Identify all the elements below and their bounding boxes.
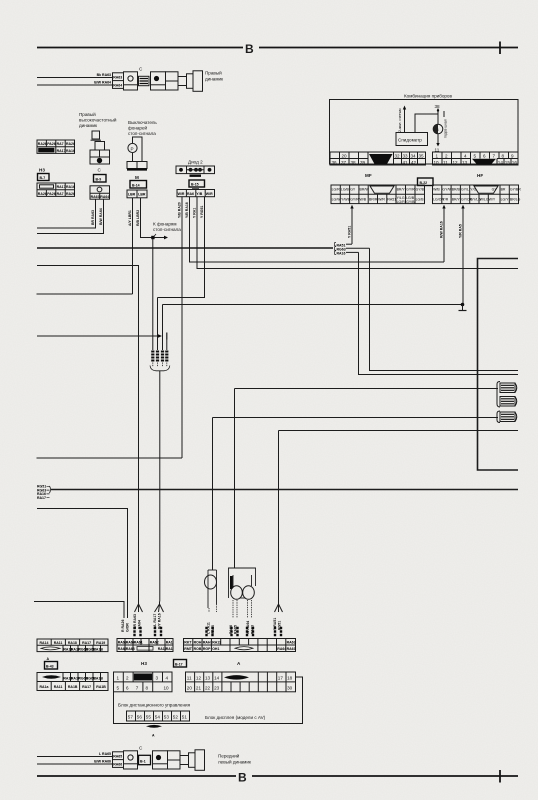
svg-text:RA26: RA26: [66, 192, 75, 196]
svg-text:RA11: RA11: [212, 641, 221, 645]
svg-text:LG/W: LG/W: [332, 198, 342, 202]
svg-text:55: 55: [146, 715, 152, 720]
svg-text:GY/B: GY/B: [406, 200, 415, 204]
pin 11: [435, 134, 440, 153]
svg-text:20: 20: [342, 153, 348, 158]
svg-text:RA63: RA63: [251, 625, 255, 634]
svg-text:Диод 2: Диод 2: [188, 160, 203, 165]
svg-text:LG/B: LG/B: [341, 188, 350, 192]
fork into H3 table wire x159: [153, 602, 164, 636]
pin 38: [435, 104, 445, 125]
svg-text:53: 53: [164, 715, 170, 720]
label C tweeter: [98, 168, 102, 173]
wire labels left fork pair: [121, 614, 130, 632]
svg-text:RA1B: RA1B: [93, 676, 103, 680]
svg-text:BR/Y: BR/Y: [452, 198, 461, 202]
svg-text:ROH: ROH: [194, 641, 202, 645]
svg-text:2: 2: [445, 153, 448, 158]
svg-text:LG/B: LG/B: [416, 198, 425, 202]
svg-text:RA65: RA65: [113, 754, 122, 758]
connector table upper-left: [37, 140, 75, 153]
wire R/B LBR2 from switch: [136, 198, 153, 238]
svg-text:LBR: LBR: [138, 193, 146, 197]
svg-text:1: 1: [436, 153, 439, 158]
svg-text:7: 7: [136, 686, 139, 691]
wire left bus y265: [37, 266, 139, 602]
svg-text:12: 12: [453, 160, 459, 165]
svg-text:10: 10: [164, 686, 170, 691]
svg-text:левый динамик: левый динамик: [218, 759, 252, 765]
svg-text:Комбинация приборов: Комбинация приборов: [404, 94, 452, 99]
svg-text:Блок дисплея (модели с AV): Блок дисплея (модели с AV): [205, 715, 266, 720]
svg-text:B-7: B-7: [40, 176, 46, 180]
wire to M switch left: [37, 293, 133, 295]
svg-text:RA26: RA26: [38, 142, 47, 146]
svg-text:P: P: [131, 147, 134, 152]
svg-text:32: 32: [395, 153, 401, 158]
svg-text:B-15: B-15: [191, 183, 199, 187]
svg-text:Y/B RA20: Y/B RA20: [178, 202, 182, 218]
svg-text:RA64: RA64: [277, 647, 286, 651]
wire RA16 down right: [359, 252, 519, 374]
cluster pin row right: [433, 152, 519, 165]
label A with connector ref B-43: [45, 657, 58, 669]
svg-text:RA17: RA17: [82, 685, 91, 689]
svg-text:LG/R: LG/R: [397, 200, 406, 204]
svg-text:BR/R: BR/R: [369, 198, 378, 202]
svg-text:стоп-сигнала: стоп-сигнала: [153, 227, 181, 232]
svg-text:16: 16: [512, 160, 518, 165]
svg-text:RA63: RA63: [113, 75, 122, 79]
svg-text:12: 12: [196, 676, 202, 681]
svg-text:5: 5: [474, 153, 477, 158]
svg-text:B/W RA64: B/W RA64: [94, 81, 111, 85]
svg-text:подсв шкал: подсв шкал: [444, 119, 448, 138]
svg-text:G/OR: G/OR: [126, 623, 130, 632]
svg-text:Y RG51: Y RG51: [200, 206, 204, 218]
right speaker symbol: [166, 71, 203, 92]
wire y335 with arrow: [37, 333, 167, 340]
svg-text:9: 9: [511, 153, 514, 158]
top page rule B: [37, 42, 518, 57]
svg-text:1.4: 1.4: [434, 128, 439, 132]
svg-text:56: 56: [137, 715, 143, 720]
svg-text:10: 10: [434, 160, 440, 165]
svg-text:H3: H3: [141, 661, 147, 666]
svg-text:RA10: RA10: [211, 625, 215, 634]
inline connector right edge single: [497, 411, 517, 423]
svg-text:38: 38: [435, 104, 441, 109]
node wire name RA51: [335, 243, 353, 248]
wire speedometer to pin 38: [415, 114, 438, 133]
svg-text:Правый: Правый: [205, 70, 222, 76]
svg-text:Y/R: Y/R: [442, 198, 448, 202]
svg-text:RA1B: RA1B: [93, 648, 103, 652]
svg-text:34: 34: [411, 153, 417, 158]
wire diode1 to left y458: [37, 457, 183, 459]
svg-text:B-1: B-1: [140, 759, 146, 763]
svg-text:Правый: Правый: [79, 111, 96, 117]
svg-text:RA64: RA64: [113, 84, 122, 88]
svg-text:B-22: B-22: [420, 181, 428, 185]
label HF: [477, 173, 483, 178]
svg-text:Блок дистанционного управления: Блок дистанционного управления: [118, 703, 191, 708]
svg-text:L RA65: L RA65: [99, 752, 111, 756]
inline connector 4-wire: [150, 338, 170, 602]
connector table bottom-middle: [117, 639, 173, 652]
svg-text:RA17: RA17: [37, 496, 46, 500]
fork into H3 table wire x138: [133, 602, 143, 636]
svg-text:RA6: RA6: [187, 192, 194, 196]
svg-text:RA14: RA14: [40, 641, 49, 645]
svg-text:B/W RA64: B/W RA64: [99, 208, 103, 225]
remote control unit enclosure: [114, 677, 303, 724]
svg-text:RA63: RA63: [287, 641, 296, 645]
svg-text:RMT: RMT: [184, 647, 192, 651]
svg-text:RA7: RA7: [57, 142, 64, 146]
svg-text:39: 39: [360, 160, 366, 165]
connector diode cells: [177, 189, 215, 197]
shielded wire loop x212: [205, 570, 217, 635]
shielded pair box x234: [229, 568, 256, 635]
svg-text:35: 35: [419, 153, 425, 158]
svg-text:W/LG: W/LG: [480, 198, 489, 202]
svg-text:BR/LG: BR/LG: [510, 198, 521, 202]
svg-text:GY/R: GY/R: [350, 198, 359, 202]
svg-text:2-жил. счетчик: 2-жил. счетчик: [398, 108, 402, 132]
connector table bottom-right: [184, 639, 296, 652]
svg-text:Y/G: Y/G: [470, 188, 476, 192]
svg-text:RA26: RA26: [38, 192, 47, 196]
svg-text:15: 15: [505, 160, 511, 165]
wire B/W RA64 to right speaker: [37, 81, 112, 86]
connector housing with pin dot: [151, 72, 166, 90]
svg-text:7: 7: [493, 153, 496, 158]
svg-text:RA65: RA65: [234, 625, 238, 634]
svg-text:RA51: RA51: [387, 198, 396, 202]
wire corner x212 to right connector: [213, 418, 499, 571]
svg-text:BR/B: BR/B: [452, 188, 461, 192]
svg-text:RA63: RA63: [126, 647, 135, 651]
svg-text:RA1: RA1: [166, 647, 173, 651]
lamp 1.4W scale illumination: [433, 119, 447, 138]
svg-text:8: 8: [502, 153, 505, 158]
svg-text:R/B LBR2: R/B LBR2: [136, 210, 140, 226]
connector table HF: [433, 185, 522, 204]
svg-text:B-9: B-9: [96, 177, 102, 181]
label stop lamp switch: [128, 120, 157, 136]
connector ref B-7: [38, 174, 50, 181]
svg-text:Y RA1: Y RA1: [193, 208, 197, 218]
svg-text:RA63: RA63: [287, 647, 296, 651]
svg-text:W/B: W/B: [433, 188, 440, 192]
wire RG51 via y297: [157, 298, 159, 339]
svg-text:B: B: [238, 771, 247, 785]
node wire name RA16: [335, 251, 359, 256]
wire R/W RA16 from HF: [440, 205, 446, 262]
svg-text:21: 21: [196, 686, 202, 691]
connector ref B-22: [418, 178, 434, 186]
svg-text:Y/L RA17: Y/L RA17: [153, 614, 157, 629]
remote control unit table left: [114, 672, 173, 692]
svg-text:6: 6: [483, 153, 486, 158]
connector cells RA63 RA64 top speaker: [113, 73, 124, 89]
svg-text:Bk RA63: Bk RA63: [97, 73, 111, 77]
wire Y RG51 diode pin4: [158, 197, 205, 298]
label MF: [365, 173, 372, 178]
bundle label left RG63: [37, 485, 51, 500]
label H3 bottom: [141, 661, 147, 666]
svg-text:R/W RA16: R/W RA16: [440, 221, 444, 238]
svg-text:W RA64: W RA64: [246, 621, 250, 634]
svg-text:1: 1: [117, 676, 120, 681]
connector housing with socket circle: [124, 72, 138, 90]
svg-text:К фонарям: К фонарям: [153, 222, 177, 227]
svg-text:41: 41: [403, 160, 409, 165]
svg-text:RA62: RA62: [150, 641, 159, 645]
svg-text:11: 11: [187, 676, 192, 681]
svg-text:23: 23: [214, 686, 220, 691]
svg-text:RA18: RA18: [68, 641, 77, 645]
svg-text:B-43: B-43: [46, 664, 54, 668]
tweeter symbol: [90, 131, 110, 164]
connector table lower-left: [37, 183, 75, 196]
svg-text:4: 4: [166, 676, 169, 681]
wire B/W RA64 from tweeter: [37, 199, 104, 233]
svg-text:B/Y RA16: B/Y RA16: [157, 613, 161, 629]
svg-text:высокочастотный: высокочастотный: [79, 117, 117, 123]
inline connector right edge pair: [497, 382, 517, 408]
svg-text:A/Y LBR1: A/Y LBR1: [128, 210, 132, 226]
svg-text:Y/B RA16: Y/B RA16: [185, 202, 189, 218]
svg-text:OH1: OH1: [212, 647, 219, 651]
connector table bottom-left lower: [37, 673, 108, 691]
svg-text:L RA11: L RA11: [207, 622, 211, 634]
connector table bottom-left upper: [37, 639, 108, 652]
inline connector C (top speaker): [139, 67, 150, 86]
svg-text:Y RA51: Y RA51: [348, 226, 352, 238]
speedometer box: [396, 133, 428, 146]
connector cells front speaker: [113, 752, 124, 768]
wire y601 corner down: [34, 602, 124, 615]
svg-text:PA26: PA26: [47, 142, 56, 146]
svg-text:H3: H3: [39, 168, 45, 173]
svg-text:RA66: RA66: [113, 763, 122, 767]
wire y304 to node T: [163, 305, 463, 339]
svg-text:57: 57: [128, 715, 134, 720]
svg-text:B/W RA66: B/W RA66: [94, 760, 111, 764]
bottom page rule B: [37, 770, 518, 785]
svg-text:RA26: RA26: [66, 142, 75, 146]
svg-text:RA66: RA66: [229, 625, 233, 634]
label to stop lamps with arrow: [153, 222, 181, 240]
inline connector C front with ref B-1: [139, 746, 151, 765]
svg-text:GY/R: GY/R: [406, 188, 415, 192]
svg-text:38: 38: [351, 160, 357, 165]
label front left speaker: [218, 753, 252, 765]
remote control unit table right: [186, 672, 296, 692]
svg-text:5: 5: [117, 686, 120, 691]
wire Y/B RA16 diode pin2: [185, 197, 444, 262]
label A bottom-right table: [237, 661, 241, 666]
connector ref B-17: [174, 660, 187, 668]
svg-text:RA11: RA11: [54, 685, 63, 689]
svg-text:6: 6: [126, 686, 129, 691]
svg-text:PA26: PA26: [47, 192, 56, 196]
svg-text:14: 14: [214, 676, 220, 681]
svg-text:42: 42: [411, 160, 417, 165]
svg-text:RA1a: RA1a: [40, 685, 49, 689]
svg-text:33: 33: [403, 153, 409, 158]
label right speaker: [205, 70, 224, 82]
svg-text:GY/L: GY/L: [461, 188, 469, 192]
svg-text:HF: HF: [477, 173, 483, 178]
svg-text:11: 11: [443, 160, 448, 165]
label M: [135, 175, 139, 180]
svg-text:RA1B: RA1B: [68, 685, 78, 689]
svg-text:фонарей: фонарей: [128, 125, 148, 131]
wire Y RA1 diode pin3: [193, 197, 518, 269]
svg-text:13: 13: [462, 160, 468, 165]
svg-text:RA61: RA61: [134, 641, 143, 645]
svg-text:RA7: RA7: [57, 192, 64, 196]
svg-text:RA17: RA17: [57, 185, 66, 189]
svg-text:B-17: B-17: [175, 662, 183, 666]
wire corner x278 thick to right: [279, 431, 519, 602]
wire stop signal down: [152, 239, 154, 338]
svg-text:51: 51: [182, 715, 188, 720]
svg-text:BR/W: BR/W: [360, 188, 370, 192]
front left speaker symbol: [168, 750, 205, 771]
wire A/Y LBR1 from switch: [128, 198, 133, 294]
svg-text:52: 52: [173, 715, 179, 720]
svg-text:8: 8: [146, 686, 149, 691]
bus wire main y489: [51, 489, 518, 491]
wire Y RA51 from MF: [348, 205, 354, 244]
svg-text:Спидометр: Спидометр: [398, 138, 422, 143]
svg-text:GY: GY: [350, 188, 356, 192]
node stop wire junction: [151, 236, 154, 239]
node T terminator: [459, 303, 467, 311]
svg-text:RA17: RA17: [82, 641, 91, 645]
svg-text:LG/Y: LG/Y: [501, 198, 510, 202]
wire corner x234 to right connector: [235, 389, 499, 569]
diode 2 symbol: [176, 166, 215, 177]
wire BR RA63 from tweeter: [37, 199, 96, 228]
svg-text:RA1: RA1: [166, 641, 173, 645]
svg-text:RA16: RA16: [66, 149, 75, 153]
svg-text:W/R: W/R: [206, 192, 213, 196]
wire y508 corner down: [37, 509, 128, 615]
svg-text:динамик: динамик: [79, 123, 98, 128]
instrument cluster box: [330, 100, 519, 165]
svg-text:RA63: RA63: [91, 195, 100, 199]
stop lamp switch symbol: [127, 137, 147, 170]
svg-text:W/Y: W/Y: [489, 198, 496, 202]
svg-text:Выключатель: Выключатель: [128, 120, 157, 125]
svg-text:RA11: RA11: [54, 641, 63, 645]
svg-text:20: 20: [187, 686, 193, 691]
svg-text:RKT: RKT: [184, 641, 192, 645]
svg-text:RAH: RAH: [203, 641, 211, 645]
svg-text:54: 54: [155, 715, 161, 720]
label instrument cluster: [404, 94, 452, 99]
svg-text:Y/B: Y/B: [196, 192, 202, 196]
label H3: [39, 168, 45, 173]
svg-text:BR RA63: BR RA63: [91, 210, 95, 225]
svg-text:4: 4: [464, 153, 467, 158]
label right tweeter: [79, 111, 117, 128]
svg-text:MF: MF: [365, 173, 372, 178]
label display unit: [205, 715, 266, 720]
svg-text:BR: BR: [501, 188, 506, 192]
svg-text:GY/BR: GY/BR: [510, 188, 521, 192]
label Diode 2: [188, 160, 203, 165]
svg-text:GY/B: GY/B: [416, 188, 425, 192]
label remote control unit: [118, 703, 191, 708]
connector table MF: [331, 185, 425, 204]
svg-text:W/R: W/R: [378, 198, 385, 202]
svg-text:GY: GY: [492, 188, 498, 192]
svg-text:RA16: RA16: [66, 185, 75, 189]
svg-text:R RA26: R RA26: [121, 619, 125, 632]
svg-text:22: 22: [205, 686, 211, 691]
thick frame right upper: [478, 259, 519, 471]
svg-text:17: 17: [278, 676, 284, 681]
svg-text:W/B: W/B: [360, 198, 367, 202]
node wire name RG63: [335, 247, 370, 252]
svg-text:RA19: RA19: [96, 641, 105, 645]
speed sensor wire with label: [398, 106, 406, 133]
svg-text:3: 3: [156, 676, 159, 681]
connector row S7-S1: [127, 711, 190, 721]
wire RG63 down right: [370, 248, 519, 370]
wire Y/B RA20 diode pin1: [178, 197, 182, 458]
svg-text:BR RA63: BR RA63: [133, 614, 137, 629]
connector housing with socket circle front: [124, 751, 138, 769]
connector ref B-9: [94, 175, 107, 183]
svg-text:13: 13: [205, 676, 211, 681]
wire Bk RA63 to right speaker: [37, 73, 112, 78]
svg-text:14: 14: [498, 160, 504, 165]
svg-text:18: 18: [287, 676, 293, 681]
svg-text:B-14: B-14: [132, 183, 140, 187]
svg-text:BR/Y: BR/Y: [397, 188, 406, 192]
svg-text:RA64: RA64: [100, 195, 109, 199]
cluster pin row left: [330, 152, 426, 165]
wire Y/R RA5 from HF: [459, 205, 465, 304]
svg-text:30: 30: [287, 686, 293, 691]
bus wire main y248: [37, 247, 333, 249]
connector M cells: [127, 190, 147, 198]
svg-text:Y/WB: Y/WB: [341, 198, 351, 202]
svg-text:RA1B: RA1B: [96, 685, 106, 689]
fork wire x278: [273, 601, 283, 635]
connector ref B-14: [130, 181, 147, 189]
svg-text:Передний: Передний: [218, 753, 240, 759]
svg-text:динамик: динамик: [205, 77, 224, 82]
svg-text:M: M: [135, 175, 139, 180]
svg-text:W/R: W/R: [178, 192, 185, 196]
connector housing with pin dot front: [153, 751, 168, 769]
svg-text:36: 36: [332, 160, 338, 165]
svg-text:LBR: LBR: [128, 193, 136, 197]
node A lens below: [146, 725, 162, 738]
connector C cells: [90, 186, 110, 199]
svg-text:RGP: RGP: [203, 647, 211, 651]
svg-text:2: 2: [126, 676, 129, 681]
wire L RA65 front speaker: [37, 752, 112, 757]
